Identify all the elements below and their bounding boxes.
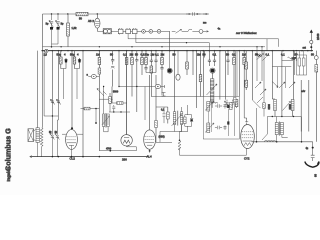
gang section capacitor — [126, 28, 131, 34]
tube V3 AL4 — [144, 130, 156, 153]
IF can 2 cap lower — [215, 126, 222, 130]
svg-text:CY2: CY2 — [244, 157, 250, 161]
switch contacts small upper — [256, 53, 266, 60]
svg-text:Ingelen: Ingelen — [6, 166, 11, 181]
trimmer capacitor 3p — [49, 14, 58, 48]
svg-text:AB 2: AB 2 — [88, 19, 94, 23]
bracket corner — [266, 39, 268, 51]
resistor small left power — [263, 51, 266, 117]
dial lamp left — [167, 51, 172, 74]
wire y154 — [180, 154, 247, 156]
capacitor bottom left 1 — [50, 133, 54, 157]
wire y131.5 — [104, 131, 188, 133]
svg-text:50p: 50p — [145, 53, 150, 57]
wire v203 — [202, 51, 204, 97]
node earth — [312, 147, 314, 149]
detector capacitor — [162, 107, 165, 123]
capacitor bottom left 2 — [55, 133, 59, 157]
capacitor c4 — [111, 51, 115, 87]
nodes on bottom wire — [256, 141, 303, 143]
node — [281, 116, 282, 117]
switch arrow between chokes — [283, 102, 291, 111]
resistor in box top — [229, 98, 236, 137]
svg-text:2/348: 2/348 — [316, 33, 320, 40]
wire v252 — [251, 51, 253, 100]
right edge column — [314, 51, 318, 142]
switch contact — [272, 82, 278, 88]
wire v83 — [82, 51, 84, 158]
capacitor earth — [311, 155, 315, 161]
wire earth vertical — [312, 142, 314, 155]
coupling coil bumps — [211, 102, 218, 103]
resistor cluster c1 — [60, 51, 68, 99]
power column 282 — [279, 51, 285, 117]
wire y38.8 outer link — [128, 34, 278, 47]
wire detector top — [156, 106, 168, 108]
node — [272, 116, 273, 117]
padder trimmer 2 — [231, 100, 234, 108]
wire U loop — [99, 147, 136, 151]
IFT3 coil pair — [173, 107, 182, 132]
resistor c8b — [233, 51, 236, 97]
IF can 2 coil lower — [207, 101, 212, 133]
svg-text:4: 4 — [64, 53, 66, 57]
wire y96.5 — [151, 96, 203, 98]
potentiometer tone — [56, 99, 61, 105]
node — [95, 122, 97, 124]
IFT2 left coil pair — [102, 87, 109, 132]
resistor c6e — [186, 62, 189, 75]
gang section capacitor — [118, 28, 123, 35]
wire v187 — [186, 51, 188, 62]
potentiometer volume — [50, 99, 55, 105]
wire left vertical pair — [43, 51, 45, 116]
svg-text:(088): (088) — [159, 135, 165, 139]
node — [131, 46, 132, 47]
detector resistor — [167, 107, 170, 124]
wire c6 link — [146, 72, 156, 74]
node — [95, 108, 97, 110]
wire y86 — [119, 85, 165, 88]
capacitor c7c — [213, 51, 216, 66]
upper rail — [43, 46, 266, 48]
neon oval — [88, 75, 99, 79]
svg-text:ant: ant — [303, 46, 307, 49]
svg-text:a: a — [87, 74, 89, 77]
capacitor c5c — [135, 51, 138, 112]
node — [261, 46, 262, 47]
switch contact — [172, 29, 188, 33]
capacitor c6c — [154, 51, 157, 73]
arrows on top line — [186, 12, 208, 15]
svg-text:0,1: 0,1 — [161, 109, 165, 112]
trimmer arrow lower — [205, 123, 214, 133]
trimmer arrow upper — [205, 101, 214, 111]
oscillator coil 1 — [210, 79, 214, 90]
wire pot feeds — [52, 51, 58, 99]
RC pair grid leak — [184, 105, 194, 132]
node — [57, 13, 58, 14]
node — [120, 111, 121, 112]
wire v301 power — [301, 117, 303, 142]
wire y112 — [109, 111, 130, 113]
wire v225 — [225, 51, 227, 100]
wire y141.8 right — [252, 141, 313, 143]
wire gang to rail — [169, 31, 171, 50]
node — [219, 46, 220, 47]
gang trimmer circle — [149, 30, 153, 34]
resistor 50 horizontal — [76, 12, 88, 15]
switch contact arc — [188, 29, 199, 31]
gang trimmer circle — [157, 30, 161, 34]
wire y42.7 inner link — [136, 34, 210, 51]
svg-text:ms: ms — [203, 22, 207, 25]
label row under rail — [57, 53, 315, 57]
wire pots to caps — [52, 104, 58, 133]
node — [113, 111, 114, 112]
svg-text:3p: 3p — [61, 22, 64, 26]
wire v174 — [174, 51, 176, 112]
capacitor c7b — [208, 51, 211, 66]
svg-text:1M: 1M — [96, 53, 100, 57]
IF can 2 coil upper — [207, 102, 210, 112]
svg-text:Columbus G: Columbus G — [4, 128, 13, 171]
node — [60, 46, 61, 47]
node — [99, 46, 100, 47]
svg-text:0,1: 0,1 — [155, 53, 159, 57]
main rail — [42, 50, 314, 52]
svg-text:0,1: 0,1 — [266, 53, 270, 57]
node — [161, 46, 162, 47]
power column 293 with choke 8000 — [291, 51, 294, 117]
wire y142 mid — [156, 132, 172, 143]
tube AB2 — [95, 14, 100, 31]
capacitor right top — [293, 51, 296, 75]
node 470 — [109, 150, 111, 152]
node — [295, 57, 297, 59]
svg-text:50: 50 — [79, 17, 82, 21]
svg-text:3p: 3p — [46, 22, 49, 26]
bottom rail — [32, 156, 148, 158]
resistor horizontal mid — [112, 102, 127, 105]
trimmer arrow across coil — [207, 84, 218, 95]
wire top line — [43, 13, 210, 15]
tube V4 CY2 — [241, 122, 255, 155]
wire y116 left — [44, 115, 58, 117]
potentiometer c3 — [97, 89, 107, 97]
output transformer secondary zigzag — [40, 128, 43, 147]
terminal circle left — [258, 54, 261, 57]
svg-text:4: 4 — [77, 53, 79, 57]
rail junction dots — [42, 50, 312, 52]
wire v219 — [219, 51, 221, 100]
IF transformer small — [103, 29, 111, 34]
node — [118, 86, 119, 87]
svg-text:8000: 8000 — [268, 104, 271, 110]
power column 272 with choke 8000 — [272, 51, 276, 117]
wire v112 — [111, 87, 113, 104]
resistor c8c V4 feed — [243, 51, 247, 122]
padder trimmer 1 — [225, 100, 230, 108]
output transformer — [275, 117, 288, 142]
IF can 2 cap upper — [215, 104, 222, 108]
svg-text:4a: 4a — [218, 27, 221, 30]
svg-text:50: 50 — [311, 53, 314, 57]
resistor c5a — [125, 51, 128, 135]
resistor c3 1M — [98, 51, 101, 151]
resistor c5b — [131, 51, 134, 97]
oscillator coil 2 — [210, 91, 214, 108]
wire speaker bottom — [38, 142, 42, 156]
node — [97, 13, 98, 14]
svg-text:5000: 5000 — [113, 92, 119, 94]
resistor 1,5k vertical — [67, 14, 70, 47]
resistor zigzag bottom — [178, 125, 182, 156]
wire left vertical — [42, 14, 44, 51]
voltage selector box — [273, 67, 292, 88]
svg-text:60: 60 — [314, 174, 318, 177]
switch contact — [289, 82, 295, 88]
wire 3W link — [282, 52, 297, 61]
terminal circle on rail — [45, 49, 48, 52]
node — [256, 46, 257, 47]
trimmer capacitor 3p — [56, 14, 61, 44]
wire v156 — [155, 75, 157, 121]
switch contacts band selector left — [252, 47, 266, 108]
output transformer primary — [36, 128, 39, 143]
shield line pair — [235, 51, 237, 97]
wire v308 — [308, 80, 310, 132]
capacitor mid cluster — [112, 105, 115, 112]
node — [67, 13, 68, 14]
svg-text:2,5: 2,5 — [44, 53, 48, 56]
diode oval on wire — [155, 85, 160, 89]
wire v119 — [118, 51, 120, 87]
resistor c6d — [160, 51, 163, 95]
trimmer arrow IFT3 — [172, 115, 182, 127]
svg-text:2M: 2M — [197, 53, 201, 57]
svg-text:4µ: 4µ — [306, 148, 309, 150]
node on top line — [51, 13, 52, 14]
svg-text:s/w: s/w — [302, 90, 306, 93]
terminal marks — [162, 93, 166, 97]
wire switch down — [256, 108, 258, 142]
node — [186, 42, 187, 43]
wire speaker top — [38, 51, 43, 128]
dial lamp — [210, 68, 215, 79]
wire v72 tube top cap — [71, 51, 73, 128]
resistor c6a — [144, 51, 147, 73]
capacitor c6b — [150, 51, 153, 97]
node — [293, 116, 294, 117]
gang section capacitor — [132, 28, 137, 34]
earth arrow — [305, 162, 319, 168]
wire v149.5 V3 top — [149, 75, 151, 130]
bottom rail dots — [52, 156, 101, 158]
wire v301 — [300, 80, 302, 132]
IF can 2 box — [203, 97, 239, 140]
resistor cluster c2 — [73, 51, 81, 99]
gang line — [111, 30, 169, 32]
svg-text:1,5k: 1,5k — [72, 26, 78, 30]
wire v193 — [192, 51, 194, 75]
wire AB2 to IFT — [97, 30, 103, 32]
gang trimmer circle — [142, 30, 146, 34]
wire v239 — [238, 51, 240, 97]
top cap dot V1 — [71, 127, 73, 129]
svg-text:4700: 4700 — [106, 148, 112, 150]
node — [52, 115, 53, 116]
IF can 2 right components — [223, 103, 232, 131]
padder resistor — [235, 100, 238, 108]
wire v145 — [144, 87, 146, 121]
resistor v156 — [155, 121, 158, 137]
node — [136, 86, 137, 87]
wire power bottom — [267, 116, 301, 118]
wire v196 — [195, 51, 197, 108]
wire v96 — [95, 109, 97, 124]
svg-text:2M: 2M — [161, 53, 165, 57]
capacitor c8a — [226, 51, 229, 75]
resistor c7 — [204, 51, 206, 58]
node — [103, 86, 104, 87]
switch contact circle arrow — [199, 30, 208, 34]
antenna — [310, 30, 313, 51]
svg-text:280: 280 — [122, 157, 127, 161]
svg-text:8000: 8000 — [289, 104, 292, 110]
resistor horizontal left mid — [81, 107, 100, 110]
tube V1 CL2 — [62, 129, 83, 157]
svg-text:nur 3 Wellenber.: nur 3 Wellenber. — [236, 31, 257, 35]
speaker — [28, 129, 36, 142]
wire v267 power — [262, 117, 267, 141]
squiggle contacts — [288, 57, 292, 59]
small tube oval — [176, 51, 180, 81]
tube V2 rectifier — [121, 51, 132, 147]
svg-text:CL2: CL2 — [70, 157, 76, 161]
oscillator resistor — [199, 51, 202, 97]
IF can 1 box — [297, 51, 307, 75]
resistor column right — [245, 51, 248, 90]
wire y99 — [99, 98, 112, 100]
resistor c5d — [141, 51, 144, 75]
resistor mid cluster — [109, 93, 112, 112]
bottom rail arrow — [30, 156, 32, 158]
choke bumps on wire — [265, 140, 276, 141]
trimmer arrow IFT2 — [102, 116, 110, 125]
